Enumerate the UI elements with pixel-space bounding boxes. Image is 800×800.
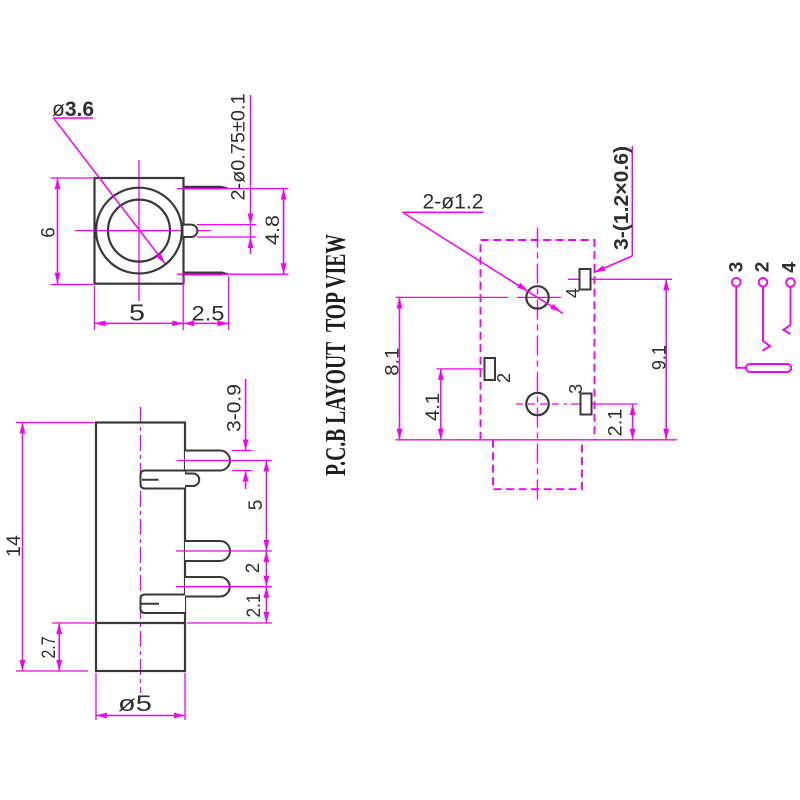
dimension line 4.8 xyxy=(283,189,285,275)
svg-text:2.7: 2.7 xyxy=(39,637,60,659)
side view tab 1 inner mark xyxy=(142,479,159,481)
extension line stub top xyxy=(197,224,257,226)
pcb outline dashed rectangle xyxy=(481,240,595,440)
wire front-view horizontal centerline xyxy=(75,230,211,232)
dimension line 5 pins xyxy=(265,461,267,552)
dimension line 2 pins xyxy=(265,551,267,587)
extension line dia5 left xyxy=(95,673,97,720)
svg-text:4.8: 4.8 xyxy=(263,215,284,245)
extension line dim2.7 top xyxy=(52,622,96,624)
wire upper hole center mark xyxy=(517,296,561,298)
arrowhead 9.1 down xyxy=(663,429,669,440)
arrowhead leader 3.6 xyxy=(156,253,165,264)
svg-text:9.1: 9.1 xyxy=(649,345,670,370)
arrowhead dim14 down xyxy=(20,660,26,671)
svg-text:2.1: 2.1 xyxy=(605,409,626,437)
leader underline 2-dia1.2 xyxy=(403,211,484,213)
pad 2 rectangle xyxy=(485,358,496,380)
extension line 8.1 top xyxy=(396,296,509,298)
extension line pad3 center xyxy=(571,403,638,405)
wire pin 4 switch contact xyxy=(783,287,790,334)
extension line dim2.5 right xyxy=(228,277,230,331)
extension line dim6 bottom xyxy=(51,284,93,286)
side view tab 2 inner mark xyxy=(141,603,160,605)
dimension line 2.7 xyxy=(58,623,60,671)
dimension line 3-0.9 lower xyxy=(245,471,247,490)
arrowhead pins5 down xyxy=(264,540,270,551)
svg-text:4.1: 4.1 xyxy=(423,393,444,421)
svg-text:2-ø1.2: 2-ø1.2 xyxy=(423,191,484,214)
dimension line 8.1 xyxy=(399,297,401,439)
svg-text:2.1: 2.1 xyxy=(244,594,265,618)
svg-text:4: 4 xyxy=(563,288,583,298)
extension line pcb bottom reference xyxy=(396,439,678,441)
arrowhead dim2.7 down xyxy=(56,660,62,671)
schematic terminal circle pin 4 xyxy=(786,278,795,287)
arrowhead dia5 right xyxy=(174,713,185,719)
leader underline for 3.6 text xyxy=(54,117,94,119)
svg-text:2.5: 2.5 xyxy=(192,303,225,326)
arrowhead leader end xyxy=(550,304,561,312)
arrowhead pins5 up xyxy=(264,461,270,472)
front view bottom pin xyxy=(184,272,229,276)
dimension line 3-0.9 upper xyxy=(245,379,247,451)
dimension line 4.1 xyxy=(440,369,442,440)
side view tab 1 stub xyxy=(185,474,199,487)
front view body square xyxy=(95,178,184,284)
front view inner circle hole xyxy=(108,200,170,262)
extension line 4.8 top xyxy=(177,188,289,190)
extension line pin1 top edge xyxy=(232,450,252,452)
dimension line 2.1 side xyxy=(265,587,267,623)
dimension line 2.1 pcb xyxy=(632,404,634,440)
arrowhead pcb2.1 down xyxy=(630,429,636,440)
svg-text:6: 6 xyxy=(39,227,60,238)
svg-text:5: 5 xyxy=(129,300,145,326)
svg-text:2: 2 xyxy=(243,563,264,574)
pad 3 rectangle xyxy=(581,394,592,415)
svg-text:3: 3 xyxy=(566,384,586,394)
dimension line 2-dia0.75 xyxy=(250,95,252,254)
arrowhead dim6 up xyxy=(55,178,61,189)
arrowhead 4.8 down xyxy=(281,263,287,274)
arrowhead pins2 up xyxy=(264,551,270,562)
dimension line 14 xyxy=(22,423,24,672)
arrowhead dim5 left xyxy=(95,321,106,327)
svg-text:2-ø0.75±0.1: 2-ø0.75±0.1 xyxy=(229,94,250,201)
dimension line 9.1 xyxy=(665,279,667,440)
arrowhead dim5 right xyxy=(172,321,183,327)
extension line dim14 bottom xyxy=(16,670,88,672)
svg-text:2: 2 xyxy=(494,373,514,383)
extension line dim14 top xyxy=(16,422,94,424)
wire pin 3 to sleeve xyxy=(736,287,746,368)
extension line pad4 center xyxy=(568,278,672,280)
front view top pin xyxy=(184,186,229,190)
extension line dia5 right xyxy=(184,673,186,720)
extension line stub bottom xyxy=(197,236,257,238)
svg-text:ø5: ø5 xyxy=(118,691,152,716)
arrowhead 0.75 up xyxy=(248,237,254,248)
svg-text:5: 5 xyxy=(246,500,267,511)
svg-text:3: 3 xyxy=(727,262,748,273)
schematic terminal circle pin 3 xyxy=(732,278,741,287)
extension line dim5 right xyxy=(182,277,184,330)
arrowhead leader pad4 xyxy=(594,266,605,273)
wire side-view centerline xyxy=(140,407,142,693)
arrowhead dim2.5 left xyxy=(183,321,194,327)
extension line pin2 center xyxy=(176,550,272,552)
extension line step right xyxy=(187,622,272,624)
arrowhead dim6 down xyxy=(55,273,61,284)
leader vertical 3-1.2x0.6 xyxy=(631,146,633,256)
arrowhead side2.1 up xyxy=(264,587,270,598)
arrowhead 0.75 down xyxy=(248,214,254,225)
arrowhead 4.1 up xyxy=(438,369,444,380)
wire pin 2 tip contact xyxy=(763,287,771,351)
extension line pin1 center xyxy=(177,460,272,462)
side view pin 3 xyxy=(185,577,230,597)
arrowhead 9.1 up xyxy=(663,279,669,290)
side view body rectangle xyxy=(96,423,185,672)
extension line dim6 top xyxy=(51,177,94,179)
sleeve contact bar xyxy=(746,364,791,372)
arrowhead 3-0.9 down xyxy=(243,440,249,451)
pcb hole lower 1.2 xyxy=(526,393,548,415)
side view solder tab 1 xyxy=(141,471,186,489)
side view pin 1 xyxy=(185,451,230,471)
arrowhead pcb2.1 up xyxy=(630,404,636,415)
side view solder tab 2 xyxy=(141,595,186,614)
arrowhead dim2.5 right xyxy=(218,321,229,327)
pad 4 rectangle xyxy=(580,269,591,290)
pcb lower dashed rectangle xyxy=(493,440,582,489)
dimension line 6 xyxy=(57,178,59,284)
arrowhead pins2 down xyxy=(264,576,270,587)
leader line 2-dia1.2 xyxy=(403,212,564,313)
leader diagonal 3-1.2x0.6 xyxy=(594,256,632,273)
svg-text:4: 4 xyxy=(780,262,800,273)
arrowhead side2.1 down xyxy=(264,612,270,623)
leader line 3.6 xyxy=(54,118,166,264)
wire pcb vertical centerline xyxy=(537,228,539,503)
dimension line dia5 xyxy=(96,715,185,717)
arrowhead 3-0.9 up xyxy=(243,471,249,482)
dimension line 5 and 2.5 xyxy=(95,322,229,324)
front view outer circle xyxy=(96,188,182,274)
svg-text:3-(1.2×0.6): 3-(1.2×0.6) xyxy=(611,146,633,250)
arrowhead dia5 left xyxy=(96,713,107,719)
arrowhead 4.8 up xyxy=(281,189,287,200)
side view body step divider line xyxy=(96,622,185,624)
extension line pin3 center xyxy=(176,586,272,588)
arrowhead 4.1 down xyxy=(438,429,444,440)
side view pin 2 xyxy=(185,541,230,561)
svg-text:ø3.6: ø3.6 xyxy=(52,98,94,121)
arrowhead dim2.7 up xyxy=(56,623,62,634)
wire lower hole center dashed xyxy=(516,403,567,405)
extension line 4.1 top xyxy=(437,368,484,370)
extension line pin1 bottom edge xyxy=(232,470,252,472)
svg-text:2: 2 xyxy=(753,262,774,273)
svg-text:8.1: 8.1 xyxy=(383,348,404,376)
arrowhead 8.1 down xyxy=(397,429,403,440)
arrowhead dim14 up xyxy=(20,423,26,434)
arrowhead 8.1 up xyxy=(397,297,403,308)
svg-text:P.C.B LAYOUT TOP VIEW: P.C.B LAYOUT TOP VIEW xyxy=(320,234,352,476)
wire front-view vertical centerline xyxy=(138,160,140,301)
schematic terminal circle pin 2 xyxy=(759,278,768,287)
arrowhead at upper hole xyxy=(517,283,528,291)
extension line dim5 left xyxy=(94,286,96,330)
extension line 4.8 bottom xyxy=(177,273,289,275)
pcb hole upper 1.2 xyxy=(526,286,548,308)
svg-text:3-0.9: 3-0.9 xyxy=(225,384,246,432)
svg-text:14: 14 xyxy=(4,535,25,557)
front view middle stub pin xyxy=(184,225,198,237)
